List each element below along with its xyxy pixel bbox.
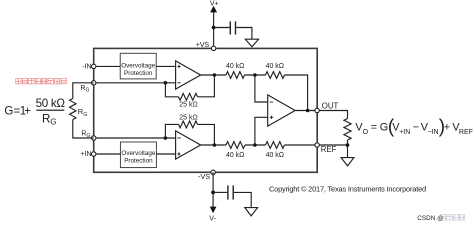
wire 25k to RG bottom line bbox=[165, 124, 178, 138]
svg-text:Overvoltage: Overvoltage bbox=[121, 62, 155, 69]
wire to bypass cap C1 bbox=[214, 27, 230, 29]
wire bottom junction to A3 + bbox=[255, 117, 268, 145]
svg-text:+: + bbox=[24, 104, 31, 117]
capacitor C1 bbox=[230, 21, 235, 34]
svg-text:25 kΩ: 25 kΩ bbox=[179, 114, 197, 121]
capacitor C2 bbox=[228, 185, 233, 199]
wire between top 40ks bbox=[245, 74, 266, 76]
svg-text:25 kΩ: 25 kΩ bbox=[179, 101, 197, 108]
svg-text:40 kΩ: 40 kΩ bbox=[266, 63, 284, 70]
V+ arrow bbox=[210, 6, 217, 13]
junction top chain bbox=[253, 73, 257, 77]
junction bottom supply bbox=[211, 191, 215, 195]
junction A1 inverting bbox=[164, 81, 168, 85]
svg-text:40 kΩ: 40 kΩ bbox=[266, 152, 284, 159]
wire bottom chain to REF bbox=[285, 144, 318, 146]
resistor 40k bottom1 bbox=[226, 142, 245, 149]
svg-text:OUT: OUT bbox=[322, 101, 339, 110]
ground top bbox=[245, 39, 258, 47]
svg-text:+: + bbox=[444, 122, 450, 134]
svg-text:40 kΩ: 40 kΩ bbox=[226, 152, 244, 159]
ground REF bbox=[341, 158, 354, 166]
IC boundary box bbox=[94, 48, 318, 172]
svg-text:Protection: Protection bbox=[124, 70, 153, 77]
op-amp A2 bbox=[176, 131, 201, 159]
wire -VS to V- bbox=[212, 172, 214, 207]
wire C2 to ground bbox=[234, 192, 251, 207]
wire RG top to external resistor bbox=[73, 83, 94, 99]
wire V+ to +VS bbox=[213, 12, 215, 48]
op-amp A3 bbox=[268, 95, 295, 126]
wire RG bottom to A2 - bbox=[96, 137, 176, 139]
junction top supply bbox=[212, 26, 216, 30]
op-amp A1 bbox=[176, 61, 201, 89]
svg-text:+IN: +IN bbox=[81, 151, 92, 158]
wire A2 feedback up bbox=[198, 124, 215, 145]
svg-text:-VS: -VS bbox=[198, 172, 210, 181]
wire OVP to A2 + bbox=[156, 153, 175, 155]
V- arrow bbox=[210, 207, 217, 214]
resistor RG external bbox=[70, 99, 76, 120]
svg-text:−IN: −IN bbox=[428, 129, 439, 136]
junction bottom chain bbox=[253, 143, 257, 147]
svg-text:G: G bbox=[380, 122, 388, 134]
wire A3 out bbox=[295, 110, 317, 112]
junction A2 inverting bbox=[164, 136, 168, 140]
junction A1 output bbox=[213, 73, 217, 77]
svg-text:+VS: +VS bbox=[196, 42, 210, 49]
svg-text:O: O bbox=[363, 129, 369, 136]
wire C1 to ground bbox=[236, 28, 252, 40]
resistor 25k A2 bbox=[179, 121, 198, 128]
wire A1 feedback down bbox=[198, 75, 215, 97]
svg-text:50 kΩ: 50 kΩ bbox=[36, 97, 66, 110]
svg-text:Protection: Protection bbox=[124, 158, 153, 165]
resistor load bbox=[344, 119, 351, 141]
gain formula G = 1 + 50k/RG bbox=[4, 97, 65, 127]
svg-text:REF: REF bbox=[321, 145, 337, 154]
fraction bar bbox=[36, 109, 64, 111]
wire +IN to OVP bbox=[96, 153, 121, 155]
wire top junction to A3 - bbox=[255, 75, 268, 102]
pin -VS bbox=[211, 170, 215, 174]
red annotation text bbox=[16, 79, 67, 84]
svg-text:−: − bbox=[413, 122, 419, 134]
svg-text:-IN: -IN bbox=[82, 64, 91, 71]
wire A2 out bbox=[201, 144, 226, 146]
wire top chain to A3 feedback column bbox=[285, 75, 308, 111]
svg-text:40 kΩ: 40 kΩ bbox=[226, 63, 244, 70]
svg-text:=: = bbox=[371, 122, 377, 134]
svg-text:+IN: +IN bbox=[399, 129, 410, 136]
junction A2 output bbox=[213, 143, 217, 147]
junction REF/load bbox=[346, 143, 350, 147]
pin REF bbox=[315, 143, 319, 147]
wire -IN to OVP bbox=[96, 65, 120, 67]
wire RG top to A1 - bbox=[96, 82, 176, 84]
wire OVP to A1 + bbox=[156, 65, 175, 67]
svg-text:V+: V+ bbox=[210, 1, 219, 8]
overvoltage protection box bottom bbox=[120, 142, 156, 168]
resistor 25k A1 bbox=[179, 93, 198, 100]
wire external resistor to RG bottom bbox=[73, 120, 94, 139]
output formula VO = G(V+IN - V-IN) + VREF bbox=[355, 116, 473, 137]
svg-text:REF: REF bbox=[459, 129, 473, 136]
wire between bottom 40ks bbox=[245, 144, 266, 146]
svg-text:Copyright © 2017, Texas Instru: Copyright © 2017, Texas Instruments Inco… bbox=[269, 185, 426, 194]
resistor 40k bottom2 bbox=[266, 142, 285, 149]
wire REF to ground bbox=[319, 145, 347, 158]
resistor 40k top1 bbox=[226, 72, 245, 79]
svg-text:G: G bbox=[4, 104, 13, 117]
svg-text:CSDN @: CSDN @ bbox=[417, 215, 443, 222]
resistor 40k top2 bbox=[266, 72, 285, 79]
wire A1 out bbox=[201, 74, 226, 76]
wire OUT to load bbox=[319, 111, 347, 119]
svg-text:V-: V- bbox=[209, 215, 216, 222]
svg-text:Overvoltage: Overvoltage bbox=[121, 150, 155, 157]
wire load to REF line bbox=[347, 140, 349, 145]
junction A3 output/feedback bbox=[306, 109, 310, 113]
ground bottom bbox=[245, 208, 258, 216]
wire to bypass cap C2 bbox=[213, 191, 227, 193]
wire 25k to RG line bbox=[165, 83, 178, 97]
overvoltage protection box top bbox=[120, 53, 156, 79]
pin OUT bbox=[315, 108, 319, 112]
